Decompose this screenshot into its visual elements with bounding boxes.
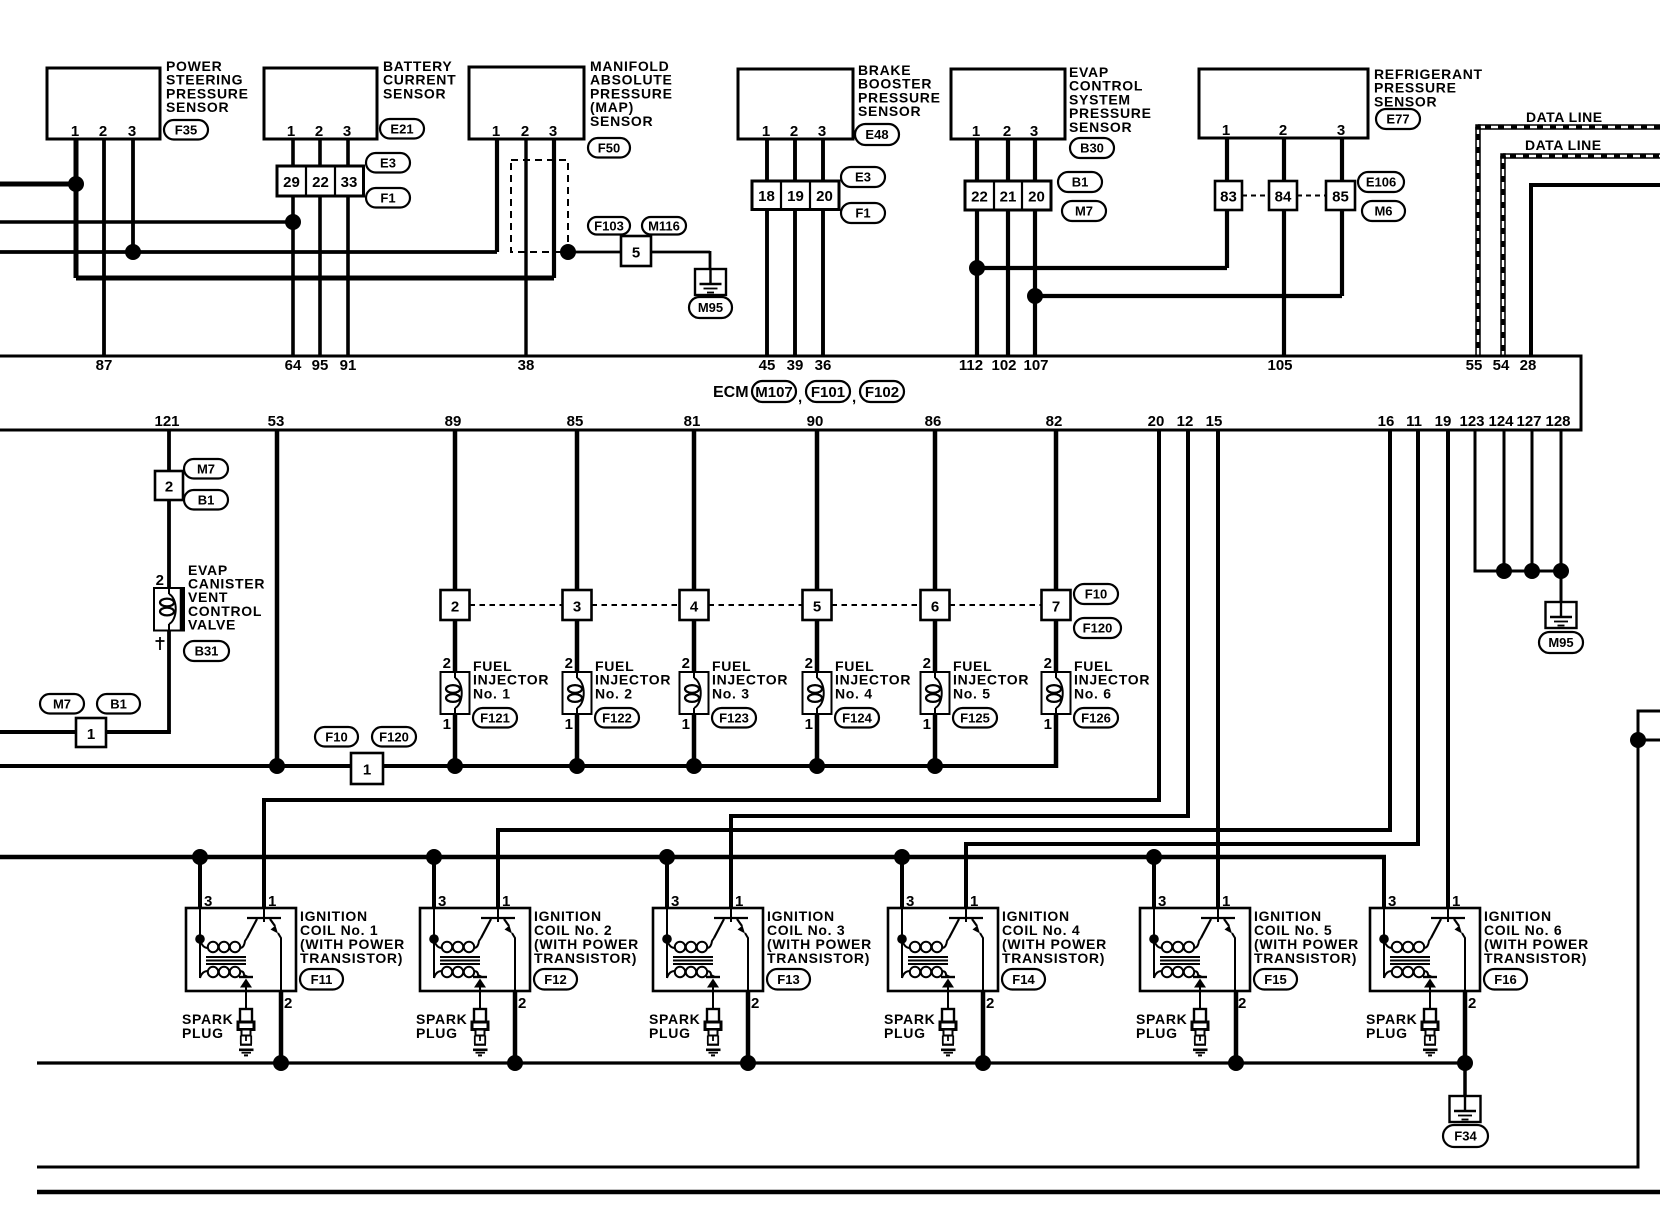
svg-text:82: 82 [1046, 413, 1063, 430]
svg-text:F120: F120 [379, 729, 409, 744]
svg-text:2: 2 [284, 995, 292, 1012]
wire: sensor supply line y=252 to MAP pin 1 [0, 250, 497, 254]
svg-text:M95: M95 [1548, 635, 1573, 650]
wire: ECM pins 123/124/127/128 ground collector [1474, 430, 1562, 602]
ECM top pin 54 [1493, 357, 1510, 374]
ECM top pin 28 [1520, 357, 1537, 374]
svg-text:E3: E3 [855, 170, 871, 185]
svg-text:1: 1 [805, 716, 813, 733]
junction dot at 1638,740 [1630, 732, 1646, 748]
junction dot at 434,857 [426, 849, 442, 865]
svg-text:F35: F35 [175, 122, 197, 137]
junction dot at 76,184 [68, 176, 84, 192]
svg-text:83: 83 [1220, 189, 1237, 206]
connector 2 on fuel injector No. 1 wire [441, 590, 563, 620]
svg-text:E21: E21 [390, 121, 413, 136]
ECM bottom pin 86 [925, 413, 942, 430]
svg-text:1: 1 [1044, 716, 1052, 733]
svg-text:121: 121 [154, 413, 179, 430]
svg-text:89: 89 [445, 413, 462, 430]
svg-text:2: 2 [1238, 995, 1246, 1012]
svg-text:,: , [852, 389, 856, 406]
junction dot at 281,1063 [273, 1055, 289, 1071]
svg-text:3: 3 [1030, 123, 1038, 140]
svg-text:F122: F122 [602, 710, 632, 725]
wire: ECM pin 90 down to fuel injector No. 4 [815, 430, 820, 768]
ground M95 (ECM pins 123-128) [1539, 601, 1583, 653]
ECM bottom pin 89 [445, 413, 462, 430]
wire: ECM pin 81 down to fuel injector No. 3 [692, 430, 697, 768]
svg-text:,: , [798, 389, 802, 406]
wire: ignition supply bus y=857 [0, 857, 1386, 908]
svg-text:No. 3: No. 3 [712, 685, 750, 701]
svg-text:No. 6: No. 6 [1074, 685, 1112, 701]
ECM top pin 95 [312, 357, 329, 374]
svg-text:18: 18 [758, 188, 775, 205]
svg-text:2: 2 [682, 655, 690, 672]
ignition coil No. 5 with power transistor (F15) [1140, 893, 1359, 1012]
wire: refrigerant sensor pin 2 to ECM pin 105 [1282, 139, 1286, 356]
svg-text:2: 2 [1044, 655, 1052, 672]
junction dot at 748,1063 [740, 1055, 756, 1071]
svg-text:1: 1 [492, 123, 500, 140]
svg-text:29: 29 [283, 174, 300, 191]
junction dot at 817,766 [809, 758, 825, 774]
ignition coil No. 4 with power transistor (F14) [888, 893, 1107, 1012]
ECM top pin 45 [759, 357, 776, 374]
wire: ECM pin 85 down to fuel injector No. 2 [575, 430, 580, 768]
junction dot at 277,766 [269, 758, 285, 774]
wire: EVAP pressure sensor pin 2 to ECM pin 102 [1006, 139, 1010, 356]
svg-text:B1: B1 [1072, 175, 1089, 190]
ECM bottom pin 85 [567, 413, 584, 430]
EVAP control system pressure sensor B30 [951, 64, 1152, 158]
svg-text:1: 1 [762, 123, 770, 140]
wire: power steering pin 3 vertical [131, 139, 135, 252]
svg-text:E77: E77 [1386, 112, 1409, 127]
ECM bottom pin 82 [1046, 413, 1063, 430]
svg-text:DATA LINE: DATA LINE [1525, 137, 1602, 153]
wire: connector 5 to ground M95 [651, 251, 710, 269]
connector 2 (M7/B1) on valve wire [155, 459, 228, 510]
junction dot at 1532,571 [1524, 563, 1540, 579]
svg-text:PLUG: PLUG [182, 1025, 224, 1041]
svg-text:F126: F126 [1081, 710, 1111, 725]
wire: ECM pin 19 down to ignition coil 6 pin 1 [1446, 430, 1450, 908]
wire: ECM pin 12 routing to ignition coil 3 [729, 430, 1190, 908]
junction dot at 977,268 [969, 260, 985, 276]
svg-text:F121: F121 [480, 710, 510, 725]
wire: sensor ground line y=278 to MAP pin 3 [76, 276, 554, 281]
svg-text:12: 12 [1177, 413, 1194, 430]
svg-text:3: 3 [1158, 893, 1166, 910]
ECM bottom pin 20 [1148, 413, 1165, 430]
ECM top pin 38 [518, 357, 535, 374]
svg-text:SENSOR: SENSOR [1069, 119, 1132, 135]
DATA LINE labels [1525, 109, 1603, 153]
junction dot at 200,857 [192, 849, 208, 865]
svg-text:2: 2 [521, 123, 529, 140]
wire: refrigerant sensor pin 3 vertical [1340, 139, 1344, 296]
wire: right border stub lower and frame down-left [37, 740, 1660, 1167]
wire: ignition coil 3 pin 2 down to ground bus [746, 991, 751, 1063]
junction dot at 935,766 [927, 758, 943, 774]
ECM bottom pin 90 [807, 413, 824, 430]
svg-text:22: 22 [312, 174, 329, 191]
wire: data line 1 (striped) to ECM pin 55 [1475, 124, 1660, 356]
svg-text:5: 5 [632, 245, 640, 262]
power steering pressure sensor F35 [47, 58, 249, 140]
svg-text:M107: M107 [755, 384, 793, 401]
svg-text:1: 1 [970, 893, 978, 910]
connector F10/F120 ovals right of connector 7 [1074, 584, 1121, 638]
svg-text:2: 2 [923, 655, 931, 672]
svg-text:TRANSISTOR): TRANSISTOR) [534, 950, 637, 966]
svg-text:3: 3 [438, 893, 446, 910]
wire: injector ground bus y=766 [0, 764, 1056, 768]
svg-text:F124: F124 [842, 710, 872, 725]
svg-text:107: 107 [1023, 357, 1048, 374]
svg-text:1: 1 [565, 716, 573, 733]
connector 3 on fuel injector No. 2 wire [563, 590, 680, 620]
wire: brake booster pin 2 to ECM pin 39 [793, 139, 797, 356]
wire: ignition coil 6 pin 2 down to ground bus [1463, 991, 1468, 1063]
svg-text:105: 105 [1267, 357, 1292, 374]
wire: brake booster pin 1 to ECM pin 45 [765, 139, 769, 356]
ECM bottom pin 15 [1206, 413, 1223, 430]
ECM bottom pin 19 [1435, 413, 1452, 430]
svg-text:M95: M95 [698, 300, 723, 315]
svg-text:F15: F15 [1264, 972, 1286, 987]
wire: bottom page line [37, 1190, 1660, 1195]
svg-text:2: 2 [99, 123, 107, 140]
brake booster pressure sensor E48 [738, 62, 941, 145]
connector 6 on fuel injector No. 5 wire [921, 590, 1042, 620]
connector block 22/21/20 (B1/M7) below EVAP sensor [965, 172, 1106, 221]
svg-text:2: 2 [805, 655, 813, 672]
connector block 29/22/33 (E3/F1) below battery sensor [277, 153, 410, 208]
svg-text:3: 3 [1337, 122, 1345, 139]
svg-text:123: 123 [1459, 413, 1484, 430]
junction dot at 667,857 [659, 849, 675, 865]
spark plug of ignition coil No. 3 [649, 1009, 721, 1055]
fuel injector No. 4 (F124) [803, 655, 912, 733]
wire: ignition coil 1 pin 3 stub from supply bus [198, 857, 202, 908]
svg-text:F125: F125 [960, 710, 990, 725]
svg-text:F101: F101 [811, 384, 845, 401]
svg-text:TRANSISTOR): TRANSISTOR) [1484, 950, 1587, 966]
svg-text:VALVE: VALVE [188, 616, 236, 632]
refrigerant pressure sensor E77 [1199, 66, 1483, 139]
svg-text:3: 3 [573, 599, 581, 616]
connectors 83/84/85 (E106/M6) below refrigerant sensor [1215, 172, 1405, 221]
junction dot at 1561,571 [1553, 563, 1569, 579]
svg-text:TRANSISTOR): TRANSISTOR) [767, 950, 870, 966]
ground M95 (MAP shield) [689, 268, 732, 318]
wire: link EVAP pin 3 to refrigerant pin 3 [1035, 294, 1342, 298]
svg-text:112: 112 [959, 357, 983, 374]
svg-text:2: 2 [1468, 995, 1476, 1012]
svg-text:No. 1: No. 1 [473, 685, 511, 701]
svg-text:No. 2: No. 2 [595, 685, 633, 701]
wire: ECM pin 86 down to fuel injector No. 5 [933, 430, 938, 768]
svg-text:102: 102 [991, 357, 1016, 374]
svg-text:F13: F13 [777, 972, 799, 987]
svg-text:3: 3 [1388, 893, 1396, 910]
svg-text:15: 15 [1206, 413, 1223, 430]
wire: battery current sensor pin 3 to ECM pin 91 [346, 139, 350, 356]
wire: ignition coil 4 pin 3 stub from supply bus [900, 857, 904, 908]
svg-text:1: 1 [735, 893, 743, 910]
ECM top pin 64 [285, 357, 302, 374]
ECM bottom pin 81 [684, 413, 701, 430]
wire: line to ECM pin 28 [1531, 183, 1660, 356]
svg-text:1: 1 [682, 716, 690, 733]
junction dot at 1504,571 [1496, 563, 1512, 579]
svg-text:F103: F103 [594, 218, 624, 233]
ignition coil No. 1 with power transistor (F11) [186, 893, 405, 1012]
wire: EVAP pressure sensor pin 3 to ECM pin 107 [1033, 139, 1037, 356]
svg-text:16: 16 [1378, 413, 1395, 430]
svg-text:1: 1 [923, 716, 931, 733]
svg-text:19: 19 [787, 188, 804, 205]
svg-text:90: 90 [807, 413, 824, 430]
svg-text:3: 3 [906, 893, 914, 910]
svg-text:55: 55 [1466, 357, 1483, 374]
wire: ignition coil 2 pin 3 stub from supply bus [432, 857, 436, 908]
wire: ECM pin 121 to EVAP canister vent control valve [167, 430, 171, 732]
svg-text:22: 22 [971, 189, 988, 206]
spark plug of ignition coil No. 4 [884, 1009, 956, 1055]
ECM top pin 36 [815, 357, 832, 374]
svg-text:87: 87 [96, 357, 113, 374]
svg-text:F10: F10 [1085, 587, 1107, 602]
svg-text:1: 1 [1222, 893, 1230, 910]
junction dot at 568,252 [560, 244, 576, 260]
svg-text:2: 2 [443, 655, 451, 672]
spark plug of ignition coil No. 2 [416, 1009, 488, 1055]
MAP sensor F50 [469, 58, 673, 158]
wire: ECM pin 15 down to ignition coil 5 pin 1 [1216, 430, 1220, 908]
dashed shield box around MAP pin 2 wire [511, 160, 568, 252]
svg-text:No. 5: No. 5 [953, 685, 991, 701]
svg-text:E3: E3 [380, 155, 396, 170]
wire: ignition coil 2 pin 2 down to ground bus [513, 991, 518, 1063]
svg-text:64: 64 [285, 357, 302, 374]
svg-text:F34: F34 [1454, 1129, 1477, 1144]
wire: horizontal feed at left to battery current sensor pin 1 [0, 220, 293, 224]
svg-text:1: 1 [287, 123, 295, 140]
ECM top pin 107 [1023, 357, 1048, 374]
connector 5 (F103/M116) [588, 217, 686, 266]
ECM bottom pin 123 [1459, 413, 1484, 430]
svg-text:2: 2 [451, 599, 459, 616]
ground F34 (ignition ground bus) [1443, 1095, 1488, 1147]
svg-text:127: 127 [1516, 413, 1541, 430]
svg-text:2: 2 [790, 123, 798, 140]
svg-text:128: 128 [1545, 413, 1570, 430]
wire: ECM pin 20 routing to ignition coil 1 [262, 430, 1161, 908]
svg-text:3: 3 [671, 893, 679, 910]
junction dot at 694,766 [686, 758, 702, 774]
svg-text:SENSOR: SENSOR [590, 113, 653, 129]
wire: ECM pin 53 down to injector ground bus [275, 430, 280, 766]
svg-text:SENSOR: SENSOR [383, 85, 446, 101]
battery current sensor E21 [264, 58, 456, 140]
ECM label with connectors M107, F101, F102 [713, 381, 904, 406]
wire: ground bus drop to ground F34 [1463, 1063, 1467, 1096]
svg-text:53: 53 [268, 413, 285, 430]
svg-text:81: 81 [684, 413, 701, 430]
junction dot at 577,766 [569, 758, 585, 774]
svg-text:1: 1 [268, 893, 276, 910]
svg-text:2: 2 [518, 995, 526, 1012]
wire: brake booster pin 3 to ECM pin 36 [821, 139, 825, 356]
svg-text:91: 91 [340, 357, 357, 374]
ECM bottom pin 121 [154, 413, 179, 430]
junction dot at 1465,1063 [1457, 1055, 1473, 1071]
svg-text:2: 2 [986, 995, 994, 1012]
ECM bottom pin 124 [1488, 413, 1514, 430]
svg-text:TRANSISTOR): TRANSISTOR) [300, 950, 403, 966]
svg-text:PLUG: PLUG [416, 1025, 458, 1041]
connector 5 on fuel injector No. 4 wire [803, 590, 921, 620]
svg-text:1: 1 [502, 893, 510, 910]
svg-text:20: 20 [1028, 189, 1045, 206]
ECM top pin 87 [96, 357, 113, 374]
svg-text:3: 3 [128, 123, 136, 140]
wire: MAP sensor pin 2 to ECM pin 38 [524, 139, 527, 356]
svg-text:84: 84 [1275, 189, 1292, 206]
svg-text:M7: M7 [53, 696, 71, 711]
svg-text:M7: M7 [197, 461, 215, 476]
wire: power steering pin 1 vertical [74, 139, 79, 278]
ECM bottom pin 12 [1177, 413, 1194, 430]
fuel injector No. 6 (F126) [1042, 655, 1151, 733]
junction dot at 1236,1063 [1228, 1055, 1244, 1071]
svg-text:B30: B30 [1080, 141, 1104, 156]
svg-text:3: 3 [204, 893, 212, 910]
svg-text:B31: B31 [195, 644, 219, 659]
svg-text:1: 1 [363, 762, 371, 779]
connector block 18/19/20 (E3/F1) below brake booster sensor [752, 167, 885, 223]
svg-text:2: 2 [565, 655, 573, 672]
svg-text:1: 1 [1452, 893, 1460, 910]
svg-text:2: 2 [751, 995, 759, 1012]
svg-text:1: 1 [972, 123, 980, 140]
svg-text:F10: F10 [325, 729, 347, 744]
wire: EVAP pressure sensor pin 1 to ECM pin 112 [975, 139, 979, 356]
svg-text:2: 2 [156, 572, 164, 589]
svg-text:19: 19 [1435, 413, 1452, 430]
svg-text:2: 2 [315, 123, 323, 140]
wire: ignition coil 4 pin 2 down to ground bus [981, 991, 986, 1063]
spark plug of ignition coil No. 5 [1136, 1009, 1208, 1055]
svg-text:F102: F102 [865, 384, 899, 401]
svg-text:F123: F123 [719, 710, 749, 725]
svg-text:21: 21 [1000, 189, 1017, 206]
svg-text:2: 2 [1003, 123, 1011, 140]
wire: ignition coil 3 pin 3 stub from supply bus [665, 857, 669, 908]
svg-text:TRANSISTOR): TRANSISTOR) [1254, 950, 1357, 966]
connector 1 (M7/B1) on valve return line [40, 694, 140, 747]
wire: power steering pin 2 to ECM pin 87 [102, 139, 106, 356]
junction dot at 902,857 [894, 849, 910, 865]
wire: battery current sensor pin 1 to ECM pin 64 [291, 139, 295, 356]
wire: MAP sensor pin 1 vertical [495, 139, 499, 252]
svg-text:B1: B1 [198, 492, 215, 507]
svg-text:85: 85 [1332, 189, 1349, 206]
svg-text:20: 20 [1148, 413, 1165, 430]
connector 1 (F10/F120) on injector ground bus [315, 727, 416, 784]
svg-text:PLUG: PLUG [649, 1025, 691, 1041]
svg-text:2: 2 [1279, 122, 1287, 139]
spark plug of ignition coil No. 1 [182, 1009, 254, 1055]
svg-text:39: 39 [787, 357, 804, 374]
svg-text:PLUG: PLUG [1136, 1025, 1178, 1041]
svg-text:45: 45 [759, 357, 776, 374]
spark plug of ignition coil No. 6 [1366, 1009, 1438, 1055]
ECM bottom pin 16 [1378, 413, 1395, 430]
wire: ECM pin 82 down to fuel injector No. 6 [1054, 430, 1059, 768]
svg-text:3: 3 [549, 123, 557, 140]
svg-text:SENSOR: SENSOR [166, 99, 229, 115]
junction dot at 455,766 [447, 758, 463, 774]
ECM top pin 102 [991, 357, 1016, 374]
fuel injector No. 2 (F122) [563, 655, 672, 733]
svg-text:F11: F11 [311, 972, 333, 987]
ignition coil No. 3 with power transistor (F13) [653, 893, 872, 1012]
svg-text:E106: E106 [1366, 175, 1396, 190]
fuel injector No. 1 (F121) [441, 655, 550, 733]
junction dot at 133,252 [125, 244, 141, 260]
svg-text:DATA LINE: DATA LINE [1526, 109, 1603, 125]
ECM top pin 112 [959, 357, 983, 374]
wire: valve return line y=735 through connector 1 to left edge [0, 730, 171, 734]
svg-text:3: 3 [818, 123, 826, 140]
junction dot at 1154,857 [1146, 849, 1162, 865]
junction dot at 293,222 [285, 214, 301, 230]
wire: shield drain from dashed shield to connector 5 [568, 251, 621, 254]
ECM bottom pin 128 [1545, 413, 1570, 430]
wire: ECM pin 89 down to fuel injector No. 1 [453, 430, 458, 768]
svg-text:PLUG: PLUG [1366, 1025, 1408, 1041]
svg-text:38: 38 [518, 357, 535, 374]
fuel injector No. 3 (F123) [680, 655, 789, 733]
ECM bottom pin 11 [1406, 413, 1422, 430]
svg-text:54: 54 [1493, 357, 1510, 374]
junction dot at 515,1063 [507, 1055, 523, 1071]
ignition coil No. 6 with power transistor (F16) [1370, 893, 1589, 1012]
svg-text:4: 4 [690, 599, 699, 616]
svg-text:SENSOR: SENSOR [1374, 93, 1437, 109]
ECM top pin 91 [340, 357, 357, 374]
connector 4 on fuel injector No. 3 wire [680, 590, 803, 620]
svg-text:95: 95 [312, 357, 329, 374]
svg-text:F1: F1 [855, 206, 870, 221]
svg-text:3: 3 [343, 123, 351, 140]
svg-text:F16: F16 [1494, 972, 1516, 987]
ignition coil No. 2 with power transistor (F12) [420, 893, 639, 1012]
ECM top pin 55 [1466, 357, 1483, 374]
svg-text:No. 4: No. 4 [835, 685, 873, 701]
EVAP canister vent control valve B31 [154, 562, 265, 661]
svg-text:5: 5 [813, 599, 821, 616]
svg-text:85: 85 [567, 413, 584, 430]
wire: ignition ground bus y=1063 [37, 1061, 1465, 1064]
svg-text:M7: M7 [1075, 204, 1093, 219]
svg-text:TRANSISTOR): TRANSISTOR) [1002, 950, 1105, 966]
